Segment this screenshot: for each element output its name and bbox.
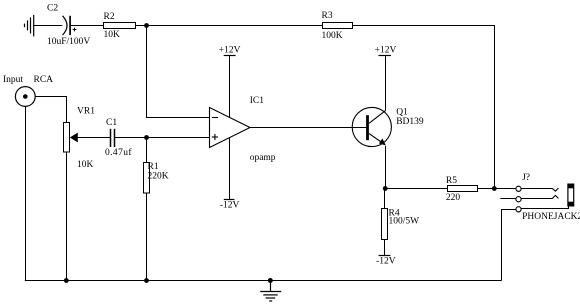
svg-text:C1: C1 (106, 118, 117, 128)
resistor R3 (323, 23, 353, 29)
svg-text:VR1: VR1 (77, 107, 95, 117)
svg-text:R2: R2 (104, 12, 115, 22)
svg-text:R5: R5 (446, 176, 457, 186)
wire R1 to ground bus (146, 193, 148, 281)
svg-text:PHONEJACK2: PHONEJACK2 (522, 212, 580, 222)
wire R2 to node A (136, 25, 147, 27)
svg-text:0.47uf: 0.47uf (105, 147, 132, 158)
op-amp IC1 (210, 108, 251, 148)
svg-text:RCA: RCA (34, 75, 54, 85)
svg-text:220K: 220K (148, 171, 169, 181)
ground bus wire (25, 280, 502, 282)
J? ring contact (521, 195, 558, 198)
wire node C to R5 (386, 188, 448, 190)
-12V power (R4) (379, 255, 391, 257)
capacitor C1 (111, 129, 115, 147)
svg-text:-12V: -12V (376, 257, 396, 267)
wire node B to R1 (146, 138, 148, 163)
connector RCA (15, 87, 35, 107)
potentiometer VR1 (64, 123, 78, 153)
wire R4 to -12V (384, 240, 386, 256)
J? sleeve (plug body) (568, 184, 574, 206)
resistor R1 (144, 163, 150, 194)
wire C1 to node B (115, 137, 147, 139)
svg-text:-12V: -12V (220, 201, 240, 211)
ground (input, left) (25, 15, 34, 37)
phone jack J? pin 1 (516, 186, 521, 191)
svg-text:IC1: IC1 (250, 96, 265, 106)
junction node A (144, 23, 149, 28)
svg-text:+12V: +12V (219, 45, 241, 55)
svg-text:+12V: +12V (375, 46, 397, 56)
J? pin 2 stub (500, 198, 516, 200)
J? tip contact (521, 188, 558, 191)
wire RCA shield to ground bus (25, 106, 27, 280)
svg-text:opamp: opamp (250, 153, 276, 163)
wire IC1 output to Q1 base (250, 127, 366, 129)
transistor Q1 (352, 107, 391, 146)
resistor R4 (382, 209, 388, 240)
junction ground symbol/ground bus (268, 278, 273, 283)
wire R5 to node D (478, 188, 495, 190)
svg-text:10uF/100V: 10uF/100V (47, 37, 90, 47)
svg-text:100/5W: 100/5W (389, 216, 420, 226)
svg-text:R3: R3 (322, 11, 333, 21)
junction R1/ground bus (144, 278, 149, 283)
wire ground to C2 (34, 25, 62, 27)
wire node B to op-amp + input (147, 137, 210, 139)
-12V power (IC1) (224, 138, 235, 200)
wire VR1 wiper to C1 (77, 137, 110, 139)
wire R3 to node D (top right corner) (353, 26, 495, 189)
+12V power (Q1) (379, 56, 392, 111)
resistor R5 (448, 186, 478, 192)
junction node B (144, 135, 149, 140)
J? sleeve wire (521, 205, 568, 209)
svg-text:10K: 10K (77, 160, 94, 170)
wire node D to J? pin 1 (495, 188, 516, 190)
phone jack J? pin 3 (516, 207, 521, 212)
wire J? pin 3 to ground bus (502, 210, 516, 281)
svg-text:10K: 10K (104, 30, 121, 40)
wire node A to R3 (147, 25, 323, 27)
wire C2 to R2 (71, 25, 104, 27)
svg-text:Input: Input (3, 75, 23, 85)
svg-text:J?: J? (522, 173, 530, 183)
resistor R2 (104, 23, 136, 29)
wire Q1 emitter to node C (385, 146, 387, 189)
ground (bus) (260, 281, 281, 302)
wire node A to op-amp - input (feedback) (147, 26, 210, 118)
wire VR1 bottom to ground bus (66, 152, 68, 281)
junction VR1/ground bus (64, 278, 69, 283)
capacitor C2 (63, 16, 77, 35)
svg-text:220: 220 (446, 193, 461, 203)
wire node C to R4 (384, 189, 386, 209)
svg-text:100K: 100K (322, 31, 343, 41)
phone jack J? pin 2 (516, 197, 521, 202)
junction node D (492, 186, 497, 191)
svg-text:BD139: BD139 (396, 117, 424, 127)
+12V power (IC1) (224, 56, 236, 118)
wire RCA to VR1 top (35, 97, 66, 123)
svg-text:C2: C2 (47, 4, 58, 14)
junction node C (383, 186, 388, 191)
